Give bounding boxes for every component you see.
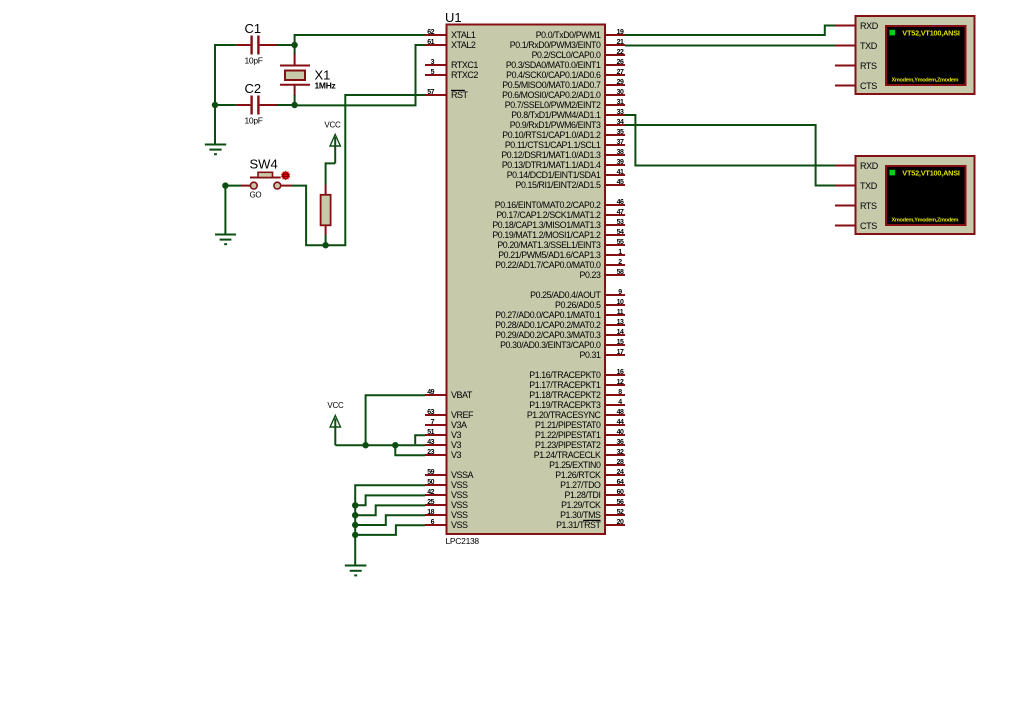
svg-text:57: 57	[427, 89, 434, 96]
U1 pin 17 (P0.31)	[580, 349, 626, 360]
svg-text:P0.0/TxD0/PWM1: P0.0/TxD0/PWM1	[536, 30, 601, 40]
svg-text:P1.31/TRST: P1.31/TRST	[556, 520, 601, 530]
U1 pin 15 (P0.30/AD0.3/EINT3/CAP0.0)	[500, 339, 625, 350]
U1 pin 60 (P1.28/TDI)	[564, 489, 625, 500]
svg-text:RTS: RTS	[860, 201, 877, 211]
U1 pin 37 (P0.11/CTS1/CAP1.1/SCL1)	[505, 139, 625, 150]
svg-text:5: 5	[431, 69, 435, 76]
svg-text:7: 7	[431, 419, 435, 426]
U1 pin 10 (P0.26/AD0.5)	[555, 299, 625, 310]
U1 pin 32 (P1.24/TRACECLK)	[534, 449, 625, 460]
svg-text:46: 46	[617, 199, 624, 206]
svg-text:V3A: V3A	[451, 420, 467, 430]
wire: U1 pin 50 (VSS) to bus	[355, 485, 425, 566]
wire: U1 pin 19 (TxD0) to T1 RXD	[625, 26, 835, 36]
svg-text:P0.15/RI1/EINT2/AD1.5: P0.15/RI1/EINT2/AD1.5	[516, 180, 601, 190]
ground: VSS bus	[345, 566, 367, 576]
svg-text:48: 48	[617, 409, 624, 416]
U1 pin 7 (V3A)	[425, 419, 467, 430]
svg-text:43: 43	[427, 439, 434, 446]
U1 pin 53 (P0.18/CAP1.3/MISO1/MAT1.3)	[492, 219, 625, 230]
svg-text:37: 37	[617, 139, 624, 146]
svg-text:32: 32	[617, 449, 624, 456]
svg-text:P0.13/DTR1/MAT1.1/AD1.4: P0.13/DTR1/MAT1.1/AD1.4	[502, 160, 601, 170]
svg-text:P0.3/SDA0/MAT0.0/EINT1: P0.3/SDA0/MAT0.0/EINT1	[506, 60, 601, 70]
svg-text:P0.20/MAT1.3/SSEL1/EINT3: P0.20/MAT1.3/SSEL1/EINT3	[497, 240, 601, 250]
svg-text:RTS: RTS	[860, 61, 877, 71]
wire: node C to U1 pin 61 (XTAL2)	[296, 45, 425, 105]
svg-text:31: 31	[617, 99, 624, 106]
svg-text:C1: C1	[245, 21, 262, 36]
power flag VCC (VBAT / V3 rail)	[327, 401, 344, 445]
wire: rail down to U1 pin 23 (V3)	[395, 445, 425, 455]
wire: resistor bottom to node E	[325, 235, 327, 245]
U1 pin 9 (P0.25/AD0.4/AOUT)	[530, 289, 625, 300]
U1 pin 5 (RTXC2)	[425, 69, 478, 80]
svg-text:8: 8	[618, 389, 622, 396]
svg-text:U1: U1	[445, 10, 462, 25]
svg-text:VREF: VREF	[451, 410, 474, 420]
svg-text:P1.23/PIPESTAT2: P1.23/PIPESTAT2	[535, 440, 601, 450]
svg-text:24: 24	[617, 469, 624, 476]
svg-text:62: 62	[427, 29, 434, 36]
svg-text:P0.5/MISO0/MAT0.1/AD0.7: P0.5/MISO0/MAT0.1/AD0.7	[502, 80, 601, 90]
svg-text:P0.28/AD0.1/CAP0.2/MAT0.2: P0.28/AD0.1/CAP0.2/MAT0.2	[495, 320, 601, 330]
power flag VCC (top, feeds resistor)	[324, 121, 341, 164]
svg-text:58: 58	[617, 269, 624, 276]
U1 pin 54 (P0.19/MAT1.2/MOSI1/CAP1.2)	[492, 229, 625, 240]
resistor (pull-up on RST)	[321, 185, 331, 236]
svg-text:P1.25/EXTIN0: P1.25/EXTIN0	[549, 460, 601, 470]
U1 pin 4 (P1.19/TRACEPKT3)	[529, 399, 625, 410]
svg-text:P0.23: P0.23	[580, 270, 601, 280]
U1 pin 46 (P0.16/EINT0/MAT0.2/CAP0.2)	[495, 199, 625, 210]
switch SW4 (push button, GO)	[241, 157, 292, 200]
svg-text:P1.27/TDO: P1.27/TDO	[560, 480, 601, 490]
U1 pin 48 (P1.20/TRACESYNC)	[527, 409, 625, 420]
svg-text:11: 11	[617, 309, 624, 316]
svg-text:P1.19/TRACEPKT3: P1.19/TRACEPKT3	[529, 400, 601, 410]
U1 pin 51 (V3)	[425, 429, 462, 440]
svg-text:V3: V3	[451, 430, 462, 440]
wire: U1 pin 33 (TxD1) to T2 RXD	[625, 115, 835, 166]
svg-text:P1.29/TCK: P1.29/TCK	[561, 500, 601, 510]
U1 pin 22 (P0.2/SCL0/CAP0.0)	[532, 49, 625, 60]
wire: C2 row left segment	[214, 104, 236, 106]
U1 pin 14 (P0.29/AD0.2/CAP0.3/MAT0.3)	[495, 329, 625, 340]
switch actuator star marker	[281, 171, 290, 181]
svg-text:P1.30/TMS: P1.30/TMS	[560, 510, 601, 520]
svg-text:Xmodem,Ymodem,Zmodem: Xmodem,Ymodem,Zmodem	[892, 217, 959, 223]
U1 pin 28 (P1.25/EXTIN0)	[549, 459, 625, 470]
svg-text:P0.21/PWM5/AD1.6/CAP1.3: P0.21/PWM5/AD1.6/CAP1.3	[498, 250, 601, 260]
U1 pin 49 (VBAT)	[425, 389, 473, 400]
U1 pin 16 (P1.16/TRACEPKT0)	[529, 369, 625, 380]
svg-text:9: 9	[618, 289, 622, 296]
svg-text:42: 42	[427, 489, 434, 496]
svg-text:P0.12/DSR1/MAT1.0/AD1.3: P0.12/DSR1/MAT1.0/AD1.3	[501, 150, 601, 160]
wire: U1 pin 18 (VSS) to bus	[354, 515, 425, 525]
U1 pin 55 (P0.20/MAT1.3/SSEL1/EINT3)	[497, 239, 625, 250]
svg-text:C2: C2	[245, 81, 262, 96]
svg-text:53: 53	[617, 219, 624, 226]
svg-text:17: 17	[617, 349, 624, 356]
svg-text:13: 13	[617, 319, 624, 326]
svg-text:TXD: TXD	[860, 181, 878, 191]
U1 pin 64 (P1.27/TDO)	[560, 479, 625, 490]
U1 pin 31 (P0.7/SSEL0/PWM2/EINT2)	[505, 99, 625, 110]
wire: U1 pin 25 (VSS) to bus	[354, 505, 425, 515]
svg-text:27: 27	[617, 69, 624, 76]
svg-text:6: 6	[431, 519, 435, 526]
U1 pin 19 (P0.0/TxD0/PWM1)	[536, 29, 625, 40]
svg-text:RXD: RXD	[860, 161, 879, 171]
svg-text:VCC: VCC	[327, 401, 344, 410]
svg-text:P0.14/DCD1/EINT1/SDA1: P0.14/DCD1/EINT1/SDA1	[507, 170, 601, 180]
svg-text:1: 1	[618, 249, 622, 256]
svg-text:P0.31: P0.31	[580, 350, 601, 360]
svg-text:V3: V3	[451, 440, 462, 450]
svg-text:RXD: RXD	[860, 21, 879, 31]
svg-text:39: 39	[617, 159, 624, 166]
wire: C1 row left segment	[214, 44, 236, 46]
svg-text:21: 21	[617, 39, 624, 46]
U1 pin 62 (XTAL1)	[425, 29, 476, 40]
wire: crystal bottom to node C	[294, 95, 296, 106]
svg-text:12: 12	[617, 379, 624, 386]
svg-text:44: 44	[617, 419, 624, 426]
svg-text:VSSA: VSSA	[451, 470, 474, 480]
svg-text:VT52,VT100,ANSI: VT52,VT100,ANSI	[902, 29, 960, 38]
U1 pin 39 (P0.13/DTR1/MAT1.1/AD1.4)	[502, 159, 625, 170]
svg-text:P1.20/TRACESYNC: P1.20/TRACESYNC	[527, 410, 602, 420]
svg-text:47: 47	[617, 209, 624, 216]
U1 pin 43 (V3)	[425, 439, 462, 450]
U1 pin 21 (P0.1/RxD0/PWM3/EINT0)	[510, 39, 625, 50]
wire: U1 pin 51 (V3) to rail	[415, 435, 425, 444]
svg-text:P0.25/AD0.4/AOUT: P0.25/AD0.4/AOUT	[530, 290, 601, 300]
svg-text:Xmodem,Ymodem,Zmodem: Xmodem,Ymodem,Zmodem	[892, 77, 959, 83]
U1 pin 35 (P0.10/RTS1/CAP1.0/AD1.2)	[502, 129, 625, 140]
svg-text:SW4: SW4	[250, 157, 278, 172]
ground: left rail (C1/C2)	[205, 145, 226, 155]
junction: VSS42 on bus	[352, 502, 358, 508]
svg-text:28: 28	[617, 459, 624, 466]
U1 pin 61 (XTAL2)	[425, 39, 476, 50]
svg-text:VSS: VSS	[451, 480, 468, 490]
svg-text:51: 51	[427, 429, 434, 436]
svg-text:P1.18/TRACEPKT2: P1.18/TRACEPKT2	[529, 390, 601, 400]
svg-text:P0.16/EINT0/MAT0.2/CAP0.2: P0.16/EINT0/MAT0.2/CAP0.2	[495, 200, 601, 210]
svg-text:63: 63	[427, 409, 434, 416]
svg-text:RST: RST	[451, 90, 469, 100]
crystal X1 1MHz	[280, 53, 336, 96]
U1 pin 44 (P1.21/PIPESTAT0)	[535, 419, 625, 430]
svg-text:RTXC1: RTXC1	[451, 60, 478, 70]
node B junction (left rail / C2)	[212, 102, 218, 108]
node F junction (VBAT / rail)	[362, 442, 368, 448]
U1 pin 18 (VSS)	[425, 509, 468, 520]
wire: C2 right to node C	[277, 104, 296, 106]
svg-text:P0.6/MOSI0/CAP0.2/AD1.0: P0.6/MOSI0/CAP0.2/AD1.0	[502, 90, 601, 100]
svg-text:VSS: VSS	[451, 520, 468, 530]
svg-text:50: 50	[427, 479, 434, 486]
U1 pin 12 (P1.17/TRACEPKT1)	[529, 379, 625, 390]
wire: node A up and to U1 pin 62 (XTAL1)	[295, 35, 425, 46]
svg-text:10pF: 10pF	[245, 56, 263, 66]
node C junction (XTAL2 net)	[291, 102, 297, 108]
svg-text:38: 38	[617, 149, 624, 156]
svg-text:34: 34	[617, 119, 624, 126]
svg-text:P0.9/RxD1/PWM6/EINT3: P0.9/RxD1/PWM6/EINT3	[510, 120, 601, 130]
U1 pin 56 (P1.29/TCK)	[561, 499, 625, 510]
wire: VCC jog to resistor top	[326, 163, 336, 185]
U1 pin 33 (P0.8/TxD1/PWM4/AD1.1)	[511, 109, 625, 120]
wire: C1 right to node A	[277, 44, 296, 46]
svg-text:33: 33	[617, 109, 624, 116]
wire: VCC rail to U1 pin 43 (V3)	[335, 444, 425, 446]
U1 pin 42 (VSS)	[425, 489, 468, 500]
svg-text:XTAL1: XTAL1	[451, 30, 476, 40]
svg-text:40: 40	[617, 429, 624, 436]
svg-text:LPC2138: LPC2138	[446, 536, 480, 546]
svg-text:4: 4	[618, 399, 622, 406]
svg-text:26: 26	[617, 59, 624, 66]
svg-text:15: 15	[617, 339, 624, 346]
svg-text:CTS: CTS	[860, 81, 877, 91]
U1 pin 57 (RST)	[425, 89, 469, 100]
svg-text:VT52,VT100,ANSI: VT52,VT100,ANSI	[902, 169, 960, 178]
wire: node D down to ground 2	[224, 186, 226, 235]
U1 pin 30 (P0.6/MOSI0/CAP0.2/AD1.0)	[502, 89, 625, 100]
node D junction (SW4 left / ground)	[222, 182, 228, 188]
node A junction (XTAL1 net)	[291, 42, 297, 48]
U1 pin 23 (V3)	[425, 449, 462, 460]
svg-text:VSS: VSS	[451, 490, 468, 500]
wire: U1 pin 42 (VSS) to bus	[354, 495, 425, 505]
svg-text:1MHz: 1MHz	[315, 81, 336, 91]
junction: VSS18 on bus	[352, 522, 358, 528]
U1 pin 13 (P0.28/AD0.1/CAP0.2/MAT0.2)	[495, 319, 625, 330]
svg-text:V3: V3	[451, 450, 462, 460]
svg-text:VBAT: VBAT	[451, 390, 473, 400]
node E junction (RST net)	[322, 242, 328, 248]
virtual terminal T1 (VT52/VT100/ANSI)	[835, 16, 975, 94]
U1 pin 27 (P0.4/SCK0/CAP0.1/AD0.6)	[506, 69, 625, 80]
node G junction (rail / pin 23 drop)	[392, 442, 398, 448]
U1 pin 38 (P0.12/DSR1/MAT1.0/AD1.3)	[501, 149, 625, 160]
svg-text:P0.8/TxD1/PWM4/AD1.1: P0.8/TxD1/PWM4/AD1.1	[511, 110, 601, 120]
svg-text:10: 10	[617, 299, 624, 306]
svg-text:P0.19/MAT1.2/MOSI1/CAP1.2: P0.19/MAT1.2/MOSI1/CAP1.2	[492, 230, 601, 240]
capacitor C1	[236, 21, 277, 66]
svg-text:20: 20	[617, 519, 624, 526]
U1 pin 63 (VREF)	[425, 409, 474, 420]
svg-text:XTAL2: XTAL2	[451, 40, 476, 50]
svg-text:P0.7/SSEL0/PWM2/EINT2: P0.7/SSEL0/PWM2/EINT2	[505, 100, 601, 110]
svg-text:P0.10/RTS1/CAP1.0/AD1.2: P0.10/RTS1/CAP1.0/AD1.2	[502, 130, 601, 140]
svg-text:P0.29/AD0.2/CAP0.3/MAT0.3: P0.29/AD0.2/CAP0.3/MAT0.3	[495, 330, 601, 340]
wire: U1 pin 34 (RxD1) to T2 TXD	[625, 125, 835, 186]
U1 pin 36 (P1.23/PIPESTAT2)	[535, 439, 625, 450]
U1 pin 11 (P0.27/AD0.0/CAP0.1/MAT0.1)	[495, 309, 625, 320]
junction: VSS6 on bus	[352, 532, 358, 538]
svg-text:RTXC2: RTXC2	[451, 70, 478, 80]
svg-text:61: 61	[427, 39, 434, 46]
U1 pin 50 (VSS)	[425, 479, 468, 490]
svg-text:54: 54	[617, 229, 624, 236]
U1 pin 2 (P0.22/AD1.7/CAP0.0/MAT0.0)	[495, 259, 625, 270]
svg-text:60: 60	[617, 489, 624, 496]
U1 pin 58 (P0.23)	[580, 269, 626, 280]
svg-text:49: 49	[427, 389, 434, 396]
svg-text:56: 56	[617, 499, 624, 506]
svg-text:VSS: VSS	[451, 500, 468, 510]
svg-text:P0.4/SCK0/CAP0.1/AD0.6: P0.4/SCK0/CAP0.1/AD0.6	[506, 70, 601, 80]
wire: U1 pin 49 (VBAT) to rail	[366, 395, 425, 444]
U1 pin 25 (VSS)	[425, 499, 468, 510]
svg-text:P1.21/PIPESTAT0: P1.21/PIPESTAT0	[535, 420, 601, 430]
svg-text:41: 41	[617, 169, 624, 176]
svg-text:45: 45	[617, 179, 624, 186]
svg-text:64: 64	[617, 479, 624, 486]
svg-text:TXD: TXD	[860, 41, 878, 51]
wire: C1 left to ground rail (vertical)	[214, 44, 216, 145]
svg-text:P1.22/PIPESTAT1: P1.22/PIPESTAT1	[535, 430, 601, 440]
wire: U1 pin 6 (VSS) to bus	[354, 525, 425, 535]
svg-text:18: 18	[427, 509, 434, 516]
wire: ground to SW4 left contact	[224, 185, 241, 187]
svg-text:P0.27/AD0.0/CAP0.1/MAT0.1: P0.27/AD0.0/CAP0.1/MAT0.1	[495, 310, 601, 320]
svg-text:19: 19	[617, 29, 624, 36]
U1 pin 47 (P0.17/CAP1.2/SCK1/MAT1.2)	[496, 209, 625, 220]
svg-text:P0.17/CAP1.2/SCK1/MAT1.2: P0.17/CAP1.2/SCK1/MAT1.2	[496, 210, 601, 220]
svg-text:55: 55	[617, 239, 624, 246]
svg-text:3: 3	[431, 59, 435, 66]
svg-text:25: 25	[427, 499, 434, 506]
svg-text:29: 29	[617, 79, 624, 86]
svg-text:P1.24/TRACECLK: P1.24/TRACECLK	[534, 450, 601, 460]
svg-text:23: 23	[427, 449, 434, 456]
svg-text:P0.22/AD1.7/CAP0.0/MAT0.0: P0.22/AD1.7/CAP0.0/MAT0.0	[495, 260, 601, 270]
U1 pin 34 (P0.9/RxD1/PWM6/EINT3)	[510, 119, 625, 130]
svg-text:P1.16/TRACEPKT0: P1.16/TRACEPKT0	[529, 370, 601, 380]
svg-text:P0.18/CAP1.3/MISO1/MAT1.3: P0.18/CAP1.3/MISO1/MAT1.3	[492, 220, 601, 230]
wire: SW4 right contact down to node E	[292, 186, 325, 246]
IC U1 LPC2138 body	[445, 10, 605, 546]
svg-text:10pF: 10pF	[245, 116, 263, 126]
svg-text:P0.2/SCL0/CAP0.0: P0.2/SCL0/CAP0.0	[532, 50, 601, 60]
wire: U1 pin 21 (RxD0) to T1 TXD	[625, 45, 835, 47]
svg-text:30: 30	[617, 89, 624, 96]
wire: node A down to crystal top	[294, 45, 296, 54]
U1 pin 1 (P0.21/PWM5/AD1.6/CAP1.3)	[498, 249, 625, 260]
U1 pin 41 (P0.14/DCD1/EINT1/SDA1)	[507, 169, 625, 180]
U1 pin 8 (P1.18/TRACEPKT2)	[529, 389, 625, 400]
svg-text:GO: GO	[250, 191, 262, 200]
capacitor C2	[236, 81, 277, 126]
svg-text:2: 2	[618, 259, 622, 266]
svg-text:35: 35	[617, 129, 624, 136]
U1 pin 24 (P1.26/RTCK)	[555, 469, 625, 480]
svg-text:22: 22	[617, 49, 624, 56]
U1 pin 52 (P1.30/TMS)	[560, 509, 625, 520]
svg-text:36: 36	[617, 439, 624, 446]
svg-text:P0.11/CTS1/CAP1.1/SCL1: P0.11/CTS1/CAP1.1/SCL1	[505, 140, 601, 150]
svg-text:14: 14	[617, 329, 624, 336]
wire: node E to U1 pin 57 (RST)	[326, 95, 425, 245]
U1 pin 20 (P1.31/TRST)	[556, 519, 625, 530]
U1 pin 6 (VSS)	[425, 519, 468, 530]
ground: below SW4	[215, 235, 236, 245]
virtual terminal T2 (VT52/VT100/ANSI)	[835, 156, 975, 234]
svg-text:P0.30/AD0.3/EINT3/CAP0.0: P0.30/AD0.3/EINT3/CAP0.0	[500, 340, 601, 350]
svg-text:52: 52	[617, 509, 624, 516]
svg-text:16: 16	[617, 369, 624, 376]
svg-text:P1.28/TDI: P1.28/TDI	[564, 490, 600, 500]
svg-text:P1.26/RTCK: P1.26/RTCK	[555, 470, 601, 480]
svg-text:P1.17/TRACEPKT1: P1.17/TRACEPKT1	[529, 380, 601, 390]
svg-text:CTS: CTS	[860, 221, 877, 231]
U1 pin 40 (P1.22/PIPESTAT1)	[535, 429, 625, 440]
U1 pin 26 (P0.3/SDA0/MAT0.0/EINT1)	[506, 59, 625, 70]
U1 pin 29 (P0.5/MISO0/MAT0.1/AD0.7)	[502, 79, 625, 90]
U1 pin 59 (VSSA)	[425, 469, 474, 480]
svg-text:P0.1/RxD0/PWM3/EINT0: P0.1/RxD0/PWM3/EINT0	[510, 40, 601, 50]
svg-text:P0.26/AD0.5: P0.26/AD0.5	[555, 300, 601, 310]
svg-text:59: 59	[427, 469, 434, 476]
U1 pin 3 (RTXC1)	[425, 59, 478, 70]
svg-text:VSS: VSS	[451, 510, 468, 520]
junction: VSS25 on bus	[352, 512, 358, 518]
U1 pin 45 (P0.15/RI1/EINT2/AD1.5)	[516, 179, 626, 190]
svg-text:VCC: VCC	[324, 121, 341, 130]
